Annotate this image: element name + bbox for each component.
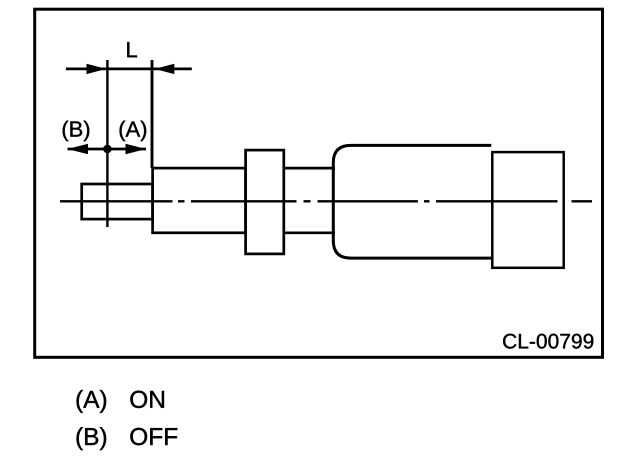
label L [127,42,137,57]
dimension line L [66,68,192,71]
figure code CL-00799 [503,334,593,349]
label (A) [120,121,147,141]
body section behind nut (top edge) [284,167,335,170]
arrowhead pointing right (ON direction A) [126,144,147,154]
arrowhead pointing left (OFF direction B) [68,144,89,154]
centerline (dash-dot axis) [60,200,592,202]
legend (B) [77,427,107,450]
body section behind nut (bottom edge) [284,231,335,234]
arrowhead pointing right at datum line [87,64,107,74]
arrowhead pointing left at body face line [155,64,175,74]
legend OFF [130,428,177,445]
plunger outline [82,184,153,219]
main switch housing (rounded) [333,145,491,258]
extension line through plunger (node B/A datum) [106,60,108,227]
datum dot on plunger axis [103,145,112,154]
travel dimension line B/A [68,148,147,151]
extension line at switch body face [151,60,154,168]
legend (A) [77,390,107,413]
switch body threaded section [153,168,246,233]
legend ON [130,391,164,408]
label (B) [63,121,90,141]
hex nut [246,150,284,254]
border frame of figure [35,9,603,357]
connector housing [492,152,563,268]
